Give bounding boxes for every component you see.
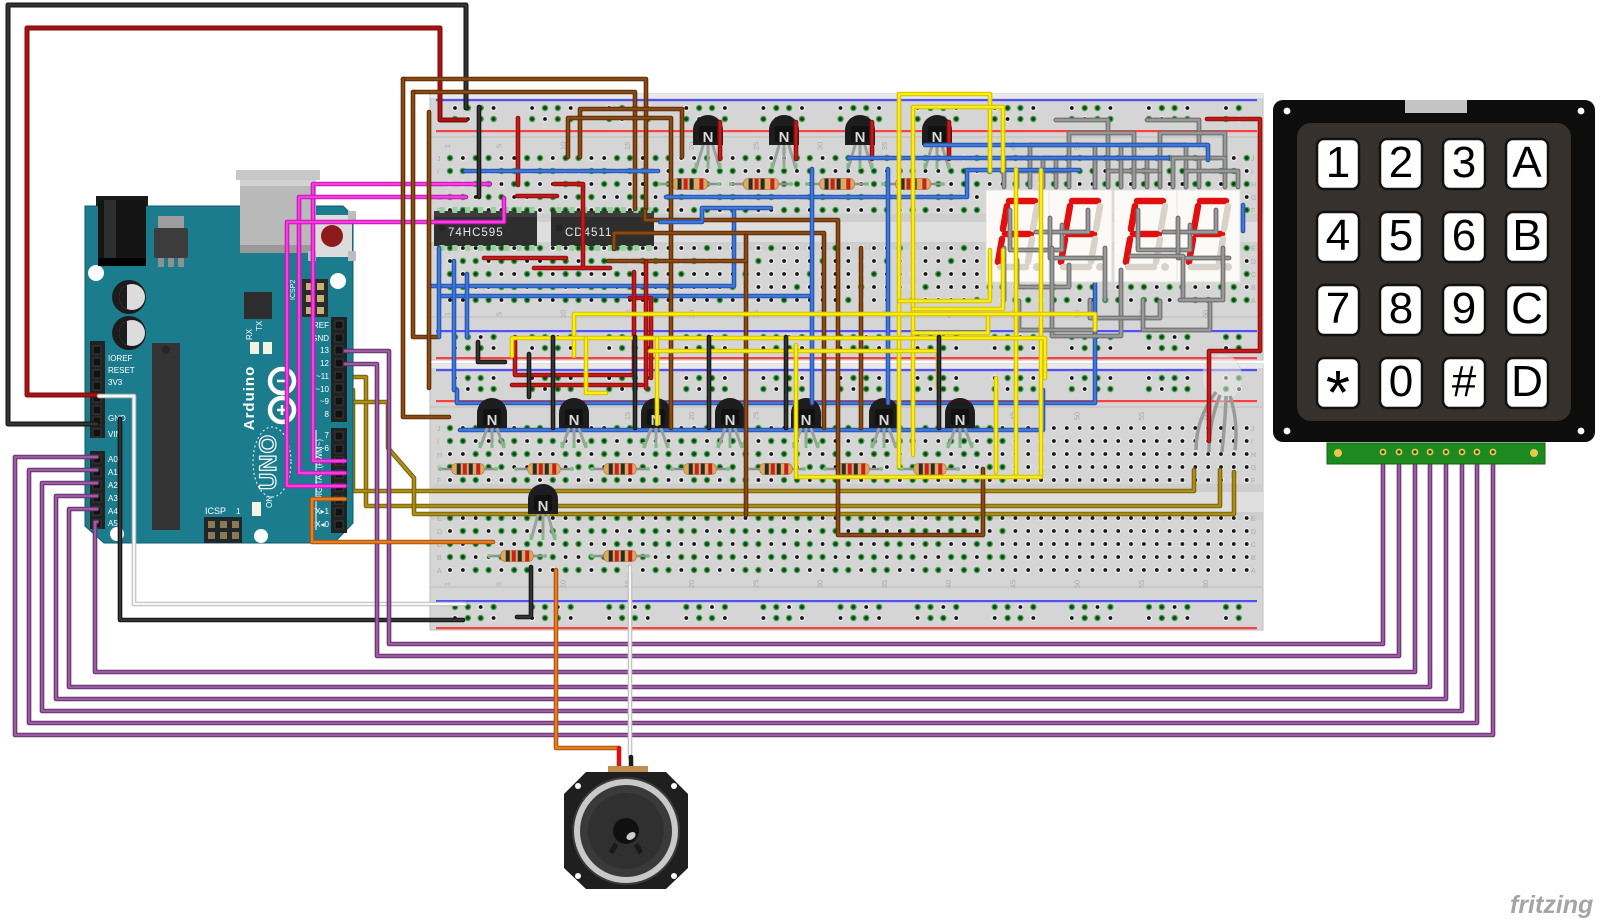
wire gray jumper	[1138, 210, 1190, 250]
svg-text:E: E	[1251, 246, 1256, 253]
wire red r3	[516, 118, 521, 185]
wire gray jumper	[1090, 300, 1160, 318]
wire purple A1 keypad	[29, 455, 1477, 723]
svg-text:A2: A2	[108, 481, 118, 490]
svg-text:55: 55	[1137, 412, 1146, 420]
svg-text:I: I	[437, 169, 439, 176]
Arduino TX RX leds and labels	[245, 320, 272, 354]
svg-text:N: N	[955, 412, 966, 429]
wire yellow y4	[1014, 169, 1019, 477]
svg-text:F: F	[1251, 208, 1255, 215]
svg-text:H: H	[437, 452, 442, 459]
transistor Q12	[528, 484, 558, 540]
wire blue mid right 2	[666, 170, 1079, 197]
svg-text:7: 7	[325, 431, 330, 440]
svg-text:4: 4	[1326, 211, 1350, 260]
wire gray jumper	[1043, 158, 1108, 187]
svg-text:A: A	[1251, 298, 1256, 305]
svg-text:8: 8	[1389, 284, 1413, 333]
transistor Q9	[791, 398, 821, 448]
svg-text:40: 40	[944, 580, 953, 588]
keypad key 4	[1317, 211, 1359, 262]
svg-text:TX: TX	[255, 320, 264, 331]
wire gray jumper	[1103, 248, 1108, 300]
wire red U1	[515, 272, 634, 375]
wire yellow y6	[574, 314, 1095, 356]
RGB LED	[1196, 354, 1242, 452]
wire gray jumper	[1002, 248, 1007, 300]
wire magenta pin4	[299, 197, 466, 473]
svg-text:J: J	[1251, 426, 1255, 433]
svg-text:20: 20	[687, 580, 696, 588]
keypad key 2	[1380, 138, 1422, 189]
wire yellow y2	[913, 107, 1003, 455]
transistor Q11	[945, 398, 975, 448]
svg-text:N: N	[703, 129, 714, 146]
keypad key A	[1506, 138, 1548, 189]
svg-text:REF: REF	[313, 321, 329, 330]
svg-text:35: 35	[880, 142, 889, 150]
wire blue row D stub	[660, 208, 771, 222]
wire yellow y10	[794, 345, 799, 477]
Arduino logo and UNO text	[241, 366, 294, 497]
svg-text:5: 5	[494, 312, 503, 316]
wire olive pin11	[345, 377, 1220, 506]
svg-text:N: N	[779, 129, 790, 146]
transistor Q3	[845, 115, 875, 169]
svg-text:D: D	[1251, 259, 1256, 266]
transistor Q1	[693, 115, 723, 169]
wire red collector Q4	[947, 122, 952, 159]
wire magenta pin5	[313, 184, 490, 461]
svg-text:30: 30	[816, 142, 825, 150]
resistor R9	[746, 464, 806, 475]
wire red collector Q1	[718, 122, 723, 159]
7-segment display DS2	[1114, 190, 1240, 282]
svg-text:ICSP: ICSP	[205, 506, 226, 516]
wire yellow y11	[994, 378, 999, 472]
svg-text:35: 35	[880, 580, 889, 588]
wire gray jumper	[1147, 120, 1199, 145]
svg-text:fritzing: fritzing	[1510, 891, 1593, 919]
transistor Q5	[477, 398, 507, 448]
wire purple A4 keypad	[69, 455, 1430, 687]
resistor R4	[881, 179, 945, 190]
wire yellow y16	[899, 250, 990, 301]
keypad key 3	[1443, 138, 1485, 189]
wire gray jumper	[1056, 120, 1108, 158]
IC 74HC595	[434, 207, 537, 251]
Arduino digital header upper	[331, 317, 347, 422]
svg-text:ON: ON	[265, 496, 274, 508]
wire gray jumper	[1143, 300, 1210, 330]
svg-text:UNO: UNO	[255, 434, 282, 490]
svg-text:B: B	[437, 555, 442, 562]
svg-text:A: A	[1512, 138, 1542, 187]
wire brown bridge A	[614, 233, 824, 428]
svg-text:1: 1	[236, 507, 241, 516]
svg-text:*: *	[1326, 359, 1350, 428]
svg-text:J: J	[437, 426, 441, 433]
wire gray jumper	[1134, 158, 1199, 187]
svg-text:2: 2	[1389, 138, 1413, 187]
resistor R10	[823, 464, 883, 475]
Arduino digital header lower	[331, 428, 347, 533]
svg-text:5: 5	[1389, 211, 1413, 260]
svg-text:J: J	[1251, 156, 1255, 163]
wire black gnd loop	[8, 5, 466, 424]
transistor Q6	[559, 398, 589, 448]
svg-text:H: H	[1251, 182, 1256, 189]
svg-text:A0: A0	[108, 455, 118, 464]
wire purple A3 keypad	[56, 455, 1446, 699]
resistor R7	[590, 464, 650, 475]
svg-text:N: N	[879, 412, 890, 429]
wire blue row-D bus	[442, 294, 812, 299]
wire yellow y8	[586, 338, 606, 393]
wire orange pin2	[312, 499, 493, 542]
wire brown b4	[580, 109, 682, 157]
wire black rail jumper	[517, 567, 531, 617]
svg-text:B: B	[1512, 211, 1541, 260]
svg-text:25: 25	[751, 142, 760, 150]
svg-text:12: 12	[320, 359, 329, 368]
breadboard 2 column labels	[437, 412, 1256, 588]
svg-text:A1: A1	[108, 468, 118, 477]
wire brown b2 drop	[413, 92, 437, 337]
Arduino ICSP2 header	[290, 279, 328, 317]
svg-text:~11: ~11	[316, 372, 330, 381]
resistor R11	[900, 464, 960, 475]
wire yellow y1	[899, 94, 990, 467]
svg-text:RESET: RESET	[108, 366, 135, 375]
wire blue long bus to display	[457, 160, 1095, 403]
wire white 5v to rail	[99, 396, 465, 604]
svg-text:C: C	[1251, 272, 1256, 279]
svg-text:60: 60	[1201, 580, 1210, 588]
svg-text:8: 8	[325, 410, 330, 419]
svg-text:20: 20	[687, 412, 696, 420]
Arduino analog header labels	[108, 455, 118, 528]
wire brown b2	[413, 92, 635, 209]
wire blue vertical 812	[810, 169, 815, 403]
svg-text:N: N	[538, 498, 549, 515]
wire red r6	[484, 256, 566, 261]
svg-text:A: A	[437, 568, 442, 575]
wire white speaker	[628, 567, 633, 757]
keypad key 7	[1317, 284, 1359, 335]
Arduino USB connector	[236, 170, 320, 253]
wire red r7	[534, 266, 610, 271]
speaker	[564, 766, 688, 889]
keypad key 9	[1443, 284, 1485, 335]
wire orange speaker	[556, 570, 619, 748]
wire blue long bus 2	[460, 390, 1043, 430]
svg-text:C: C	[1251, 542, 1256, 549]
svg-text:A: A	[1251, 568, 1256, 575]
wire blue v1	[437, 248, 442, 337]
svg-text:N: N	[569, 412, 580, 429]
wire black rail drop T7	[937, 337, 942, 428]
transistor Q8	[715, 398, 745, 448]
resistor R8	[670, 464, 730, 475]
svg-text:I: I	[1251, 439, 1253, 446]
wire black bb gap2	[478, 342, 505, 362]
wire brown bridge B	[608, 236, 746, 261]
Arduino power header labels	[108, 354, 135, 439]
wire red display supply	[1207, 119, 1260, 441]
svg-text:A3: A3	[108, 494, 118, 503]
svg-text:1: 1	[443, 312, 452, 316]
svg-text:3: 3	[1452, 138, 1476, 187]
wire gray jumper	[1180, 248, 1223, 300]
wire purple pin13 keypad	[345, 351, 1383, 644]
svg-text:74HC595: 74HC595	[448, 227, 504, 239]
resistor R6	[514, 464, 574, 475]
wire purple A5 keypad	[95, 455, 1415, 672]
svg-text:15: 15	[623, 142, 632, 150]
breadboard 2 holes	[447, 375, 1250, 621]
breadboard 1 holes	[447, 105, 1250, 351]
wire brown b1 drop	[403, 79, 449, 417]
svg-text:#: #	[1452, 357, 1477, 406]
svg-text:GND: GND	[108, 414, 126, 423]
Arduino power header	[90, 341, 105, 438]
wire brown b8	[645, 210, 983, 535]
wire yellow y17	[913, 250, 1003, 309]
wire blue v3	[465, 274, 470, 337]
wire gray jumper	[1010, 210, 1062, 250]
wire yellow y14	[655, 338, 660, 424]
wire red speaker lead	[617, 748, 622, 780]
wire black bb2 top	[527, 354, 532, 397]
keypad 4x4	[1273, 100, 1595, 442]
svg-text:D: D	[437, 529, 442, 536]
wire yellow y15	[650, 351, 938, 388]
svg-text:C: C	[1511, 284, 1543, 333]
wire yellow y3	[913, 316, 988, 333]
wire red r4	[554, 184, 583, 268]
wire gray jumper	[1164, 210, 1216, 232]
wire gray jumper	[1004, 158, 1056, 187]
svg-text:G: G	[1251, 195, 1256, 202]
svg-text:I: I	[1251, 169, 1253, 176]
svg-text:E: E	[437, 516, 442, 523]
Arduino ICSP header	[204, 506, 242, 543]
wire magenta pin3	[287, 198, 504, 486]
wire olive pin9	[345, 402, 1234, 514]
svg-text:1: 1	[443, 582, 452, 586]
transistor Q7	[641, 398, 671, 448]
svg-text:D: D	[1511, 357, 1543, 406]
transistor Q2	[769, 115, 799, 169]
wire gray jumper	[1173, 158, 1225, 187]
svg-text:5: 5	[494, 582, 503, 586]
keypad key #	[1443, 357, 1485, 408]
wire brown b3	[427, 112, 432, 388]
Arduino ATmega MCU	[152, 343, 180, 530]
svg-text:CD4511: CD4511	[565, 227, 612, 239]
wire blue mid right	[849, 156, 1168, 161]
resistor R12	[487, 551, 547, 562]
svg-text:50: 50	[1073, 580, 1082, 588]
wire red collector Q3	[870, 122, 875, 159]
svg-text:25: 25	[751, 412, 760, 420]
Arduino reset button	[308, 211, 356, 261]
svg-text:1: 1	[1326, 138, 1350, 187]
svg-text:6: 6	[1452, 211, 1476, 260]
keypad pcb	[1327, 443, 1545, 464]
wire red 5v loop	[27, 28, 466, 395]
resistor R2	[729, 179, 793, 190]
svg-text:5: 5	[494, 144, 503, 148]
wire gray jumper	[1069, 133, 1134, 171]
svg-text:55: 55	[1137, 580, 1146, 588]
keypad key 6	[1443, 211, 1485, 262]
breadboard 1 column labels	[437, 142, 1256, 318]
resistor R5	[438, 464, 498, 475]
keypad key C	[1506, 284, 1548, 335]
resistor R3	[805, 179, 869, 190]
resistor R13	[590, 551, 650, 562]
svg-text:IOREF: IOREF	[108, 354, 133, 363]
svg-text:N: N	[725, 412, 736, 429]
Arduino voltage regulator	[154, 216, 188, 267]
svg-text:25: 25	[751, 580, 760, 588]
Arduino ON led	[252, 496, 274, 516]
svg-text:H: H	[1251, 452, 1256, 459]
wire gray jumper	[1186, 171, 1238, 187]
Arduino analog header	[90, 451, 105, 529]
transistor Q10	[869, 398, 899, 448]
breadboard 2	[430, 364, 1263, 630]
wire purple A2 keypad	[42, 455, 1462, 711]
wire black bb1	[477, 107, 482, 197]
keypad key 5	[1380, 211, 1422, 262]
svg-text:D: D	[1251, 529, 1256, 536]
svg-text:RX: RX	[245, 328, 254, 340]
keypad key D	[1506, 357, 1548, 408]
wire blue right stub	[1241, 205, 1246, 231]
breadboard 1	[430, 94, 1263, 360]
svg-text:~9: ~9	[320, 397, 330, 406]
wire black rail drop T4	[707, 337, 712, 428]
svg-text:ICSP2: ICSP2	[290, 280, 297, 300]
keypad key 1	[1317, 138, 1359, 189]
wire blue v2	[452, 261, 457, 390]
keypad key 0	[1380, 357, 1422, 408]
svg-text:50: 50	[1073, 412, 1082, 420]
svg-text:15: 15	[623, 412, 632, 420]
svg-text:I: I	[437, 439, 439, 446]
svg-text:J: J	[437, 156, 441, 163]
wire brown long C	[859, 248, 864, 428]
wire olive pin10	[345, 390, 1194, 491]
svg-text:N: N	[855, 129, 866, 146]
wire gray jumper	[1017, 171, 1069, 187]
wire red r8	[630, 298, 651, 378]
wire blue row-E bus	[432, 210, 734, 286]
svg-text:A5: A5	[108, 519, 118, 528]
Arduino crystal	[244, 292, 272, 319]
wire brown b7	[744, 261, 749, 515]
svg-text:30: 30	[816, 580, 825, 588]
wire black gnd to rail	[120, 419, 463, 620]
wire blue vertical 888	[886, 169, 891, 403]
svg-text:Arduino: Arduino	[241, 366, 258, 431]
keypad key B	[1506, 211, 1548, 262]
svg-text:A4: A4	[108, 507, 118, 516]
wire gray jumper	[1178, 218, 1229, 258]
wire red U2	[512, 383, 642, 388]
wire purple A0 keypad	[15, 455, 1493, 735]
svg-text:1: 1	[443, 144, 452, 148]
wire yellow y9	[796, 475, 1041, 480]
svg-text:N: N	[801, 412, 812, 429]
wire gray jumper	[1052, 248, 1121, 336]
wire gray jumper	[1121, 145, 1186, 187]
svg-text:13: 13	[320, 346, 329, 355]
keypad key 8	[1380, 284, 1422, 335]
svg-text:G: G	[1251, 465, 1256, 472]
Arduino electrolytic capacitors	[112, 280, 146, 350]
transistor Q4	[922, 115, 952, 169]
svg-text:~10: ~10	[315, 385, 329, 394]
wire blue top right	[925, 145, 1208, 160]
wire black rail drop T2	[551, 337, 556, 428]
wire gray jumper	[1036, 210, 1088, 232]
wire blue row I bus	[465, 169, 658, 174]
wire gray jumper	[1050, 218, 1101, 258]
wire yellow y7	[512, 338, 1045, 378]
wire purple pin12 keypad	[345, 364, 1399, 656]
resistor R1	[658, 179, 722, 190]
svg-text:B: B	[1251, 555, 1256, 562]
wire red collector Q2	[794, 122, 799, 159]
wire gray jumper	[1030, 145, 1095, 187]
wire brown b5	[568, 118, 671, 428]
wire gray jumper	[1108, 171, 1160, 187]
svg-text:10: 10	[559, 580, 568, 588]
wire gray jumper	[1017, 260, 1069, 287]
keypad key *	[1317, 358, 1359, 428]
Arduino Uno board	[85, 206, 353, 543]
svg-text:E: E	[1251, 516, 1256, 523]
wire red r5	[517, 194, 557, 199]
wire yellow y5	[1039, 170, 1044, 477]
wire brown b1	[403, 79, 646, 209]
svg-text:F: F	[437, 478, 441, 485]
svg-text:10: 10	[559, 310, 568, 318]
svg-text:N: N	[487, 412, 498, 429]
svg-text:0: 0	[1389, 357, 1413, 406]
wire gray jumper	[1095, 158, 1147, 187]
wire black rail drop T3	[633, 337, 638, 428]
wire gray jumper	[1019, 301, 1095, 330]
svg-text:7: 7	[1326, 284, 1350, 333]
wire red r9	[644, 262, 649, 388]
svg-text:9: 9	[1452, 284, 1476, 333]
wire gray jumper	[1160, 133, 1225, 171]
Arduino digital header labels	[309, 321, 329, 529]
wire gray jumper	[1131, 256, 1183, 300]
wire black speaker lead	[629, 757, 634, 780]
7-segment display DS1	[986, 190, 1112, 282]
IC CD4511	[551, 207, 654, 251]
svg-text:B: B	[1251, 285, 1256, 292]
svg-text:F: F	[1251, 478, 1255, 485]
svg-text:45: 45	[1008, 580, 1017, 588]
